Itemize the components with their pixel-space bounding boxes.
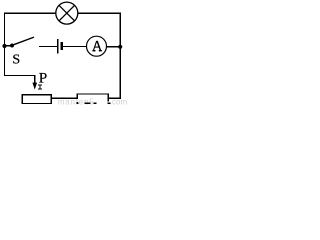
wire from switch fixed contact to battery — [39, 46, 57, 47]
wire rheostat to resistor box — [52, 98, 77, 99]
junction node dot right — [118, 45, 122, 49]
switch S: open lever — [12, 37, 34, 45]
svg-text:.com: .com — [110, 98, 127, 106]
rheostat P box — [22, 94, 52, 104]
wire right vertical — [120, 13, 121, 99]
wire ammeter to right vertical — [107, 46, 121, 47]
wire resistor box to right vertical — [109, 98, 121, 99]
resistor box R — [77, 93, 111, 104]
watermark manfen5.com — [58, 98, 128, 107]
wire short segment between switch dots — [5, 45, 13, 46]
wire top horizontal — [4, 13, 121, 14]
wire left vertical — [4, 13, 5, 77]
slider arrow shaft — [34, 75, 35, 84]
label subscript 1 (I-shaped glyph) — [38, 85, 42, 90]
svg-text:P: P — [39, 69, 47, 86]
wire bottom-left horizontal to slider — [4, 75, 36, 76]
battery: short thick plate (-) — [60, 42, 62, 50]
svg-text:S: S — [12, 52, 20, 67]
switch S: pivot dot — [10, 44, 14, 48]
ammeter A — [87, 36, 107, 56]
wire battery to ammeter — [63, 46, 87, 47]
switch S: node dot on left wire — [2, 44, 6, 48]
lamp L (circle with X) — [56, 2, 78, 24]
battery: long thin plate (+) — [57, 39, 58, 54]
slider arrow head — [32, 83, 37, 90]
